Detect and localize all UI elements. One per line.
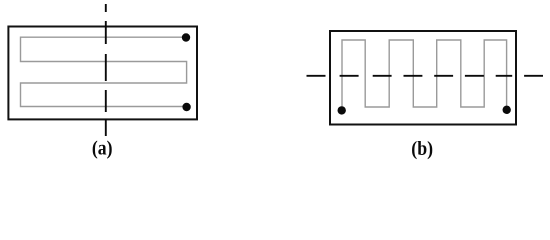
- feed point dot bottom (a): [182, 103, 190, 111]
- svg-text:(a): (a): [92, 138, 113, 160]
- resonator (a) outline: [8, 27, 197, 120]
- symmetry axis dashed line (b): [307, 75, 544, 77]
- meander line (b): [342, 40, 507, 112]
- feed point dot right (b): [503, 106, 511, 114]
- resonator (b) outline: [330, 31, 516, 125]
- symmetry axis dashed line (a): [105, 4, 107, 136]
- meander line (a): [21, 37, 187, 106]
- feed point dot top (a): [182, 33, 190, 41]
- feed point dot left (b): [338, 106, 346, 114]
- svg-text:(b): (b): [411, 138, 433, 160]
